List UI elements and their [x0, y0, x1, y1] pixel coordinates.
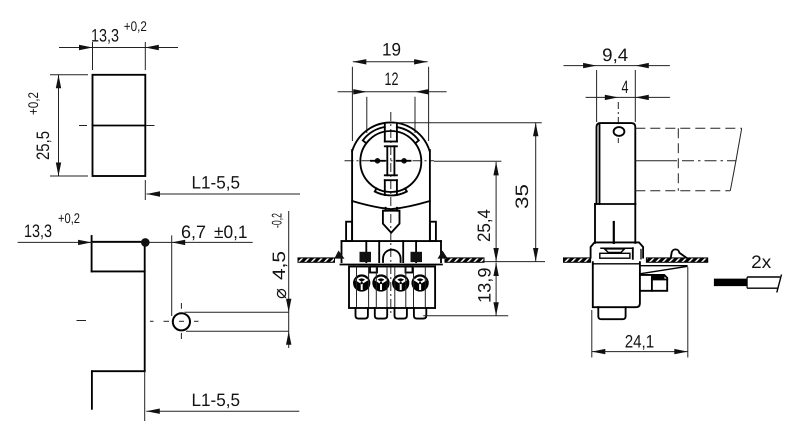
terminal circles with wedges [354, 275, 428, 291]
horizontal centerline [345, 160, 435, 162]
mounting plate right of front view [445, 258, 545, 262]
dimension L1-5,5 top [145, 173, 300, 201]
lamp break lines [730, 128, 741, 190]
head dome [352, 122, 429, 151]
dimension 19 [352, 40, 428, 142]
terminal block [349, 267, 435, 309]
svg-text:+0,2: +0,2 [124, 18, 147, 34]
lamp dashed outline [635, 128, 741, 190]
right wing arc [397, 127, 419, 143]
dimension 13,3 bottom [18, 210, 253, 245]
dimension 24,1 [592, 267, 688, 358]
svg-text:35: 35 [512, 184, 532, 209]
contact pins [371, 158, 411, 164]
svg-text:6,7: 6,7 [181, 222, 206, 242]
side mounting legs [346, 222, 436, 241]
left wing arc [363, 127, 385, 143]
wedge arm [640, 266, 688, 274]
dimension 13,9 [423, 263, 508, 316]
body bottom V-curve [352, 201, 430, 209]
bottom legs [356, 308, 427, 319]
svg-text:4: 4 [622, 77, 629, 97]
dimension 4 [586, 77, 670, 124]
side body upper [597, 123, 636, 204]
lamp centerline [635, 160, 677, 162]
svg-text:12: 12 [385, 69, 399, 89]
junction dot [141, 238, 150, 247]
L-profile part outline [92, 236, 145, 409]
dimension 25,5 left [25, 75, 88, 176]
svg-text:+0,2: +0,2 [58, 210, 80, 226]
lower housing [593, 262, 640, 319]
side body lower [595, 204, 635, 243]
hole center cross [77, 303, 199, 339]
svg-text:25,4: 25,4 [474, 209, 494, 242]
svg-text:13,3: 13,3 [91, 26, 119, 46]
hole tangent extension lines [185, 312, 289, 331]
part rectangle outline [93, 75, 146, 176]
svg-text:-0,2: -0,2 [269, 213, 285, 228]
svg-text:L1-5,5: L1-5,5 [192, 173, 241, 193]
retaining clip [671, 249, 686, 257]
svg-text:13,9: 13,9 [475, 268, 495, 304]
dimension 12 [338, 69, 447, 133]
svg-text:19: 19 [382, 40, 401, 60]
svg-text:L1-5,5: L1-5,5 [192, 390, 241, 410]
svg-text:⌀: ⌀ [270, 288, 290, 299]
side plate hatch right [646, 258, 707, 262]
clamp blocks [360, 250, 423, 262]
center line dashes [79, 125, 156, 127]
dimension 6,7 ±0,1 [172, 222, 248, 316]
dimension 9,4 [564, 45, 670, 122]
vertical centerline [390, 112, 392, 316]
connector protrusion [640, 275, 667, 291]
spade latch [383, 208, 400, 233]
svg-text:±0,1: ±0,1 [214, 222, 248, 242]
lamp pin hole [614, 127, 625, 145]
svg-text:2x: 2x [751, 252, 771, 272]
svg-text:24,1: 24,1 [625, 332, 655, 352]
dimension L1-5,5 bottom [145, 371, 300, 421]
wire symbol 2x [714, 252, 782, 293]
flange [341, 241, 442, 264]
svg-text:25,5: 25,5 [33, 131, 53, 160]
head inner circle [360, 131, 421, 192]
dimension 35 [395, 123, 542, 262]
svg-text:9,4: 9,4 [602, 45, 628, 65]
terminal cell dividers [357, 267, 426, 309]
central slot [385, 124, 397, 195]
flange ears [334, 251, 447, 259]
svg-text:+0,2: +0,2 [25, 92, 41, 115]
bottom band arc [375, 188, 407, 195]
hole circle [173, 313, 190, 330]
dimension 13,3 top [59, 18, 178, 70]
side plate hatch left [564, 258, 591, 262]
mounting plate left of front view [298, 258, 335, 262]
dimension 25,4 [434, 161, 501, 261]
svg-text:13,3: 13,3 [24, 221, 52, 241]
dimension dia 4,5 -0,2 [269, 211, 292, 348]
body sides [352, 150, 430, 241]
side flange [591, 242, 644, 258]
svg-text:4,5: 4,5 [269, 251, 289, 280]
